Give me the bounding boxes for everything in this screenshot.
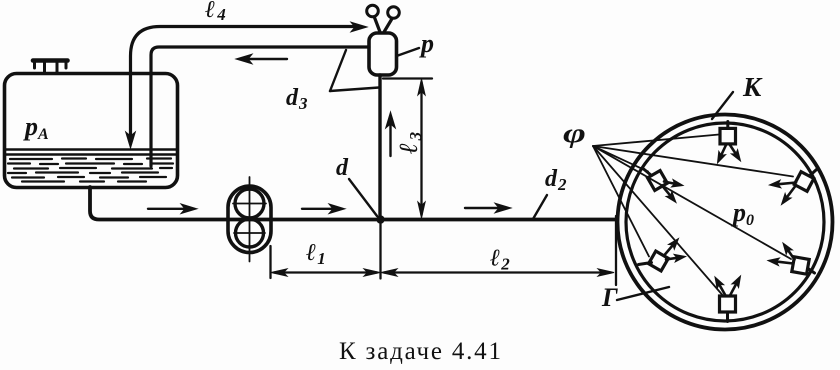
fan line to lower-left nozzle [593,146,649,257]
d2 leader [533,195,547,219]
l1 left arrowhead [271,269,287,276]
tank body [5,74,178,188]
flow arrow 1 on main pipe [148,208,186,210]
l3 extension line [383,77,432,79]
pump centerline top circle [233,203,266,205]
device knob left [367,5,379,17]
svg-text:φ: φ [563,119,586,149]
svg-text:ℓ1: ℓ1 [306,240,326,268]
pump bottom gear circle [236,219,264,247]
nozzle N6 (bottom): square [720,296,736,312]
liquid surface [6,148,176,151]
device stem right [384,20,392,33]
flow arrow 3 on main pipe [465,207,500,209]
l3 dimension line [420,82,422,215]
label p leader [397,48,420,56]
arrowhead right into device [351,22,367,32]
nozzle vertical pipe [378,75,381,218]
device stem left [375,18,381,33]
nozzle N2 spray arrows [664,182,676,184]
nozzle N1 stem [726,122,729,129]
nozzle N1 (top): square [720,128,736,144]
fan line to upper-left nozzle [593,146,648,172]
chamber outer circle [618,115,833,330]
flow arrow left (under l4 pipe) [243,58,287,60]
pump top gear circle [235,189,264,218]
svg-text:К задаче 4.41: К задаче 4.41 [339,338,503,365]
pump centerline bottom circle [234,232,265,234]
nozzle N5 spray arrows [787,249,794,259]
svg-text:ℓ4: ℓ4 [205,0,226,24]
svg-text:d: d [336,155,349,181]
nozzle N5 (lower-right): square [792,257,809,274]
return pipe inner wall [151,47,369,166]
d leader [349,179,377,216]
l1 dimension line [274,271,377,273]
return pipe outer wall (into tank, arrow down) [131,27,358,142]
liquid hatching [8,159,173,182]
flow arrow up (beside nozzle pipe) [389,119,391,156]
nozzle N2 (upper-left): square [648,171,668,191]
tank filler cap [45,62,58,74]
svg-text:d2: d2 [545,166,567,194]
fan line to upper-right nozzle [593,146,793,177]
pump vertical centerline [249,177,251,262]
l2 right arrowhead [598,269,614,276]
arrowhead down into tank [126,132,136,148]
l3 bottom arrowhead [418,202,425,218]
svg-text:p0: p0 [731,198,754,229]
d3 leader to nozzle pipe [330,88,379,92]
chamber inner circle [626,123,824,321]
nozzle N1 spray arrows [721,145,726,156]
device p (nozzle head) [369,33,397,75]
fan line to top nozzle [593,135,719,147]
l1 left extension line [269,246,271,278]
nozzle N3 stem [810,170,817,176]
svg-text:К: К [742,72,763,102]
pump body (stadium) [228,186,271,253]
svg-text:Г: Г [601,283,618,312]
svg-text:pA: pA [23,112,49,143]
flow arrow 2 on main pipe [302,208,334,210]
nozzle N2 stem [643,169,652,176]
l2 right extension line [615,216,617,285]
tank outlet pipe + main pipe [90,187,616,220]
l3 top arrowhead [418,79,425,95]
nozzle N4 (lower-left): square [649,251,669,271]
junction dot [376,215,384,223]
nozzle N4 spray arrows [665,244,674,255]
svg-text:ℓ3: ℓ3 [394,130,425,154]
svg-text:ℓ2: ℓ2 [490,246,510,274]
nozzle N4 stem [639,263,652,265]
nozzle N5 stem [808,269,815,274]
device knob right [388,7,400,19]
svg-text:d3: d3 [286,85,308,113]
nozzle N6 stem [726,312,729,322]
nozzle N6 spray arrows [719,284,726,296]
l2 dimension line [384,271,611,273]
l1 right arrowhead [364,269,380,276]
l1/l2 middle extension line [379,223,381,279]
fan line to bottom nozzle [593,146,722,295]
fan line to lower-right nozzle [593,146,791,259]
svg-text:p: p [419,29,434,58]
l2 left arrowhead [381,269,397,276]
nozzle N3 spray arrows [777,183,796,185]
nozzle N3 (upper-right): square [794,172,814,192]
G leader [617,287,669,300]
d3 leader to l4 pipe [330,50,346,91]
K leader [712,92,733,119]
